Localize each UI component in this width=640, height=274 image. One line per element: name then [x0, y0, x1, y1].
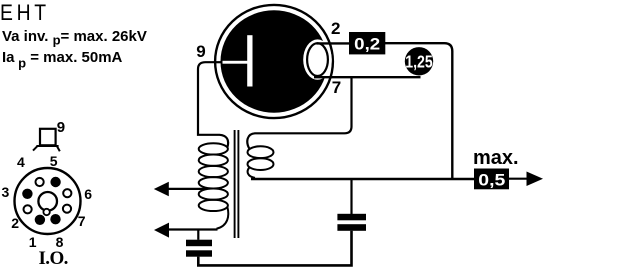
socket pin label 7 — [78, 214, 86, 228]
capacitor C1 (left) — [186, 231, 212, 257]
top cap pin label 9 — [57, 120, 65, 135]
socket pin label 5 — [50, 154, 58, 168]
tap wire with arrow (deflection) — [154, 182, 206, 196]
label 9 (tube anode lead) — [196, 43, 205, 60]
output box 0.5 with arrow — [474, 169, 543, 190]
socket pin 4 (open) — [36, 178, 44, 186]
output rail wire — [251, 178, 474, 180]
transformer secondary winding L2 — [248, 146, 274, 170]
ground return wire between capacitors — [198, 231, 351, 266]
wire pin7 lead — [314, 76, 421, 78]
anode plate (white bar) — [216, 35, 253, 86]
bottom wire with arrow (boost) — [154, 223, 218, 238]
socket pin 2 (open) — [24, 205, 32, 213]
wire pin9 lead to transformer primary top — [198, 62, 228, 147]
spec line Ia p = max. 50mA — [2, 50, 122, 70]
wire heater feed: vertical from pin7 wire down, left to secondary top — [247, 77, 351, 148]
current rating box 0.2 — [349, 32, 385, 54]
filament halo — [303, 39, 332, 79]
socket pin label 1 — [29, 235, 37, 249]
socket pin 8 (filled) — [50, 214, 60, 224]
svg-text:0,5: 0,5 — [478, 170, 505, 189]
label I.O. — [39, 249, 68, 268]
wire pin2 lead into fuse box — [317, 42, 350, 44]
socket pin 3 (filled) — [22, 189, 32, 199]
svg-text:1,25: 1,25 — [405, 51, 433, 71]
socket pin 5 (filled) — [50, 177, 60, 187]
socket pin label 6 — [84, 187, 92, 201]
label max. (output) — [473, 148, 519, 168]
socket pin label 4 — [17, 155, 25, 169]
top cap symbol (pin 9) — [33, 129, 60, 152]
socket center spigot with key — [38, 192, 57, 215]
svg-text:0,2: 0,2 — [354, 34, 380, 53]
wire from 0.2 box to right vertical down to output rail — [385, 43, 452, 179]
primary bottom curl — [217, 207, 229, 229]
socket pin 7 (open) — [63, 205, 71, 213]
title EHT — [0, 2, 50, 24]
socket base circle — [15, 168, 81, 234]
socket pin label 3 — [2, 185, 10, 199]
heater voltage disc 1.25 — [405, 47, 433, 75]
spec line Va inv p = max. 26kV — [2, 29, 147, 47]
socket pin label 2 — [11, 216, 19, 230]
transformer core — [235, 130, 239, 238]
filament heater f — [307, 43, 328, 76]
label 2 (tube filament lead) — [331, 20, 340, 37]
socket pin 6 (open) — [63, 189, 71, 197]
secondary bottom curl — [248, 167, 255, 178]
socket pin label 8 — [56, 235, 64, 249]
socket pin 1 (filled) — [35, 215, 45, 225]
capacitor C2 (right) — [337, 179, 366, 231]
label 7 (tube filament lead) — [332, 79, 341, 96]
tube V1 black disc — [221, 10, 328, 112]
tube V1 envelope outer circle — [215, 5, 333, 118]
transformer primary winding L1 — [199, 143, 228, 211]
